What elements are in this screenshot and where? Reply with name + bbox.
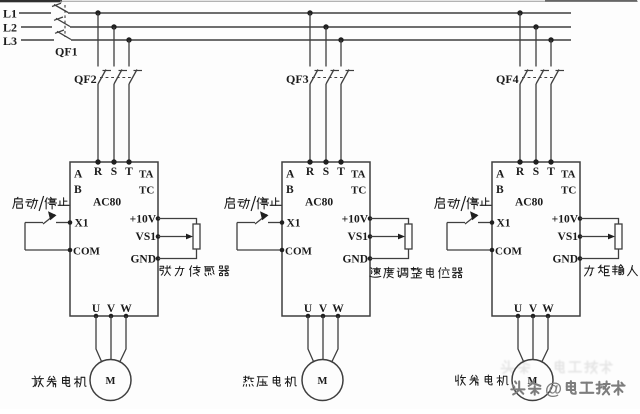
- node GND terminal: [578, 256, 583, 261]
- wire L1 to QF2 pole 1: [97, 13, 99, 67]
- breaker QF4 pole 3: [551, 70, 559, 85]
- svg-text:T: T: [337, 166, 345, 178]
- node GND terminal: [368, 256, 373, 261]
- svg-text:R: R: [306, 166, 315, 178]
- potentiometer R2 body: [405, 224, 412, 249]
- node U terminal: [94, 314, 99, 319]
- svg-text:QF4: QF4: [496, 72, 519, 86]
- node V terminal: [321, 314, 326, 319]
- svg-text:V: V: [529, 303, 538, 315]
- wire switch to X1 terminal: [478, 222, 492, 224]
- wire L3 to QF3 pole 3: [340, 40, 342, 67]
- svg-text:T: T: [547, 166, 555, 178]
- breaker QF1 pole L1: [54, 5, 68, 13]
- switch S1 blade: [43, 215, 55, 225]
- watermark 头条@电工技术: [511, 381, 540, 395]
- wire VS1 to pot R3 wiper: [580, 236, 610, 238]
- breaker QF4 linkage (dashed): [522, 77, 553, 79]
- node X1 terminal: [280, 220, 285, 225]
- svg-text:B: B: [74, 184, 82, 196]
- wire switch return (left leg): [236, 223, 238, 251]
- wire L2 to QF4 pole 2: [535, 27, 537, 67]
- inverter U3 pin T terminal: [548, 159, 553, 164]
- node W terminal: [336, 314, 341, 319]
- svg-text:VS1: VS1: [136, 231, 157, 243]
- breaker QF3 linkage (dashed): [312, 77, 343, 79]
- wire pot R1 bottom to GND: [158, 249, 197, 259]
- svg-text:X1: X1: [287, 218, 301, 230]
- pot label block 1: [160, 266, 229, 277]
- svg-text:VS1: VS1: [348, 231, 369, 243]
- wire QF3 pole 2 to inverter S: [325, 84, 327, 162]
- pot R2 wiper arrowhead: [398, 234, 405, 240]
- node COM terminal: [280, 248, 285, 253]
- motor M1 body: [90, 360, 131, 401]
- wire L2 to QF2 pole 2: [113, 27, 115, 67]
- breaker QF3 pole 3: [341, 70, 349, 85]
- breaker QF1 linkage (dashed): [64, 5, 66, 37]
- node W terminal: [124, 314, 129, 319]
- wire L3 to QF4 pole 3: [550, 40, 552, 67]
- svg-text:S: S: [111, 166, 117, 178]
- inverter U1 pin S terminal: [111, 159, 116, 164]
- potentiometer R1 body: [193, 224, 200, 249]
- wire pot R2 bottom to GND: [370, 249, 409, 259]
- breaker QF4 pole 1: [520, 70, 528, 85]
- svg-text:GND: GND: [342, 254, 368, 266]
- wire switch return (left leg): [446, 223, 448, 251]
- breaker QF4 pole 2: [536, 70, 544, 85]
- svg-text:@: @: [545, 379, 562, 399]
- breaker QF3 pole 2: [326, 70, 334, 85]
- inverter U3 pin R terminal: [517, 159, 522, 164]
- breaker QF1 pole L3: [57, 31, 71, 39]
- node COM terminal: [68, 248, 73, 253]
- node VS1 terminal: [156, 234, 161, 239]
- breaker QF1 pole L2: [56, 18, 70, 26]
- svg-text:AC80: AC80: [305, 197, 333, 209]
- pot label block 2: [370, 267, 463, 278]
- inverter U2 pin T terminal: [338, 159, 343, 164]
- switch S2 arrowhead: [260, 211, 269, 220]
- wire U to motor M1: [96, 316, 102, 362]
- node +10V terminal: [578, 216, 583, 221]
- svg-text:+10V: +10V: [342, 214, 369, 226]
- svg-text:A: A: [496, 169, 505, 181]
- breaker QF2 pole 2: [114, 70, 122, 85]
- svg-text:AC80: AC80: [93, 197, 121, 209]
- svg-text:GND: GND: [130, 254, 156, 266]
- start/stop label block 3: [435, 196, 491, 211]
- svg-text:QF2: QF2: [74, 72, 97, 86]
- faint ghost of watermark (scan artifact): [501, 361, 612, 374]
- switch S2 blade: [255, 215, 267, 225]
- svg-text:TC: TC: [139, 185, 154, 197]
- svg-text:S: S: [533, 166, 539, 178]
- node V terminal: [531, 314, 536, 319]
- svg-text:VS1: VS1: [558, 231, 579, 243]
- svg-text:A: A: [74, 169, 83, 181]
- inverter U2 pin S terminal: [323, 159, 328, 164]
- svg-text:W: W: [332, 303, 344, 315]
- node QF2 tap on L2: [111, 24, 116, 29]
- node COM terminal: [490, 248, 495, 253]
- wire W to motor M3: [542, 316, 548, 362]
- svg-text:X1: X1: [75, 218, 89, 230]
- node W terminal: [546, 314, 551, 319]
- svg-text:TA: TA: [561, 169, 576, 181]
- wire QF4 pole 2 to inverter S: [535, 84, 537, 162]
- wire pot R3 bottom to GND: [580, 249, 619, 259]
- svg-text:T: T: [125, 166, 133, 178]
- wire QF3 pole 3 to inverter T: [340, 84, 342, 162]
- wire L3 to QF2 pole 3: [128, 40, 130, 67]
- node GND terminal: [156, 256, 161, 261]
- motor label block 3: [456, 375, 508, 385]
- svg-text:TC: TC: [351, 185, 366, 197]
- node QF3 tap on L2: [323, 24, 328, 29]
- wire W to motor M1: [120, 316, 126, 362]
- switch S3 wire from X1: [447, 222, 465, 224]
- switch S3 blade: [465, 215, 477, 225]
- wire QF4 pole 3 to inverter T: [550, 84, 552, 162]
- motor label block 1: [32, 376, 86, 387]
- start/stop label block 2: [225, 196, 281, 211]
- breaker QF2 pole 1: [98, 70, 106, 85]
- inverter U3 pin S terminal: [533, 159, 538, 164]
- inverter U1 pin T terminal: [126, 159, 131, 164]
- node VS1 terminal: [368, 234, 373, 239]
- svg-text:U: U: [92, 303, 101, 315]
- wire V to motor M1: [110, 316, 112, 360]
- pot R1 wiper arrowhead: [186, 234, 193, 240]
- switch S1 wire from X1: [25, 222, 43, 224]
- wire switch to X1 terminal: [56, 222, 70, 224]
- svg-text:L2: L2: [3, 21, 17, 35]
- node QF2 tap on L1: [95, 10, 100, 15]
- breaker QF2 pole 3: [129, 70, 137, 85]
- svg-text:W: W: [542, 303, 554, 315]
- motor M3 body: [512, 360, 553, 401]
- motor M2 body: [302, 360, 343, 401]
- node +10V terminal: [156, 216, 161, 221]
- svg-text:GND: GND: [552, 254, 578, 266]
- scan artifact: dark top edge: [0, 0, 62, 2]
- svg-text:B: B: [286, 184, 294, 196]
- wire L3 bus: [21, 39, 54, 41]
- node V terminal: [109, 314, 114, 319]
- wire L1 bus: [19, 12, 51, 14]
- node QF4 tap on L3: [548, 37, 553, 42]
- svg-text:TC: TC: [561, 185, 576, 197]
- svg-text:V: V: [107, 303, 116, 315]
- svg-text:W: W: [120, 303, 132, 315]
- svg-text:+10V: +10V: [130, 214, 157, 226]
- svg-text:B: B: [496, 184, 504, 196]
- switch S2 wire from X1: [237, 222, 255, 224]
- node QF3 tap on L1: [307, 10, 312, 15]
- wire V to motor M2: [322, 316, 324, 360]
- svg-text:COM: COM: [285, 246, 313, 258]
- node X1 terminal: [490, 220, 495, 225]
- node +10V terminal: [368, 216, 373, 221]
- wire +10V to pot R1 top: [158, 219, 197, 225]
- svg-text:QF1: QF1: [55, 45, 78, 59]
- svg-text:+10V: +10V: [552, 214, 579, 226]
- node VS1 terminal: [578, 234, 583, 239]
- start/stop label block 1: [13, 196, 69, 211]
- wire U to motor M3: [518, 316, 524, 362]
- motor label block 2: [243, 376, 296, 387]
- potentiometer R3 body: [615, 224, 622, 249]
- svg-text:S: S: [323, 166, 329, 178]
- wire QF2 pole 2 to inverter S: [113, 84, 115, 162]
- inverter U1 pin R terminal: [95, 159, 100, 164]
- svg-text:COM: COM: [73, 246, 101, 258]
- svg-text:L1: L1: [3, 7, 17, 21]
- wire switch return (left leg): [24, 223, 26, 251]
- svg-text:A: A: [286, 169, 295, 181]
- svg-text:U: U: [514, 303, 523, 315]
- svg-text:AC80: AC80: [515, 197, 543, 209]
- wire VS1 to pot R1 wiper: [158, 236, 188, 238]
- wire L2 to QF3 pole 2: [325, 27, 327, 67]
- wire switch return to COM: [237, 249, 282, 251]
- wire QF2 pole 3 to inverter T: [128, 84, 130, 162]
- wire VS1 to pot R2 wiper: [370, 236, 400, 238]
- node QF4 tap on L1: [517, 10, 522, 15]
- svg-text:X1: X1: [497, 218, 511, 230]
- inverter U1 AC80 body: [70, 162, 158, 316]
- wire +10V to pot R2 top: [370, 219, 409, 225]
- breaker QF2 linkage (dashed): [100, 77, 131, 79]
- inverter U3 AC80 body: [492, 162, 580, 316]
- svg-text:V: V: [319, 303, 328, 315]
- wire switch to X1 terminal: [268, 222, 282, 224]
- wire L1 to QF3 pole 1: [309, 13, 311, 67]
- switch S3 arrowhead: [470, 211, 479, 220]
- pot R3 wiper arrowhead: [608, 234, 615, 240]
- inverter U2 AC80 body: [282, 162, 370, 316]
- svg-text:QF3: QF3: [286, 72, 309, 86]
- svg-text:U: U: [304, 303, 313, 315]
- wire W to motor M2: [332, 316, 338, 362]
- inverter U2 pin R terminal: [307, 159, 312, 164]
- wire U to motor M2: [308, 316, 314, 362]
- switch S1 arrowhead: [48, 211, 57, 220]
- node QF3 tap on L3: [338, 37, 343, 42]
- svg-text:R: R: [516, 166, 525, 178]
- svg-text:TA: TA: [351, 169, 366, 181]
- breaker QF3 pole 1: [310, 70, 318, 85]
- node U terminal: [306, 314, 311, 319]
- svg-text:TA: TA: [139, 169, 154, 181]
- svg-text:M: M: [318, 376, 328, 387]
- svg-text:COM: COM: [495, 246, 523, 258]
- svg-text:M: M: [106, 376, 116, 387]
- wire QF4 pole 1 to inverter R: [519, 84, 521, 162]
- wire QF3 pole 1 to inverter R: [309, 84, 311, 162]
- wire switch return to COM: [25, 249, 70, 251]
- pot label block 3: [585, 265, 638, 276]
- node U terminal: [516, 314, 521, 319]
- wire V to motor M3: [532, 316, 534, 360]
- wire L2 bus: [21, 26, 52, 28]
- wire switch return to COM: [447, 249, 492, 251]
- svg-text:R: R: [94, 166, 103, 178]
- node QF4 tap on L2: [533, 24, 538, 29]
- node QF2 tap on L3: [126, 37, 131, 42]
- svg-text:L3: L3: [3, 34, 17, 48]
- wire +10V to pot R3 top: [580, 219, 619, 225]
- wire L1 to QF4 pole 1: [519, 13, 521, 67]
- wire QF2 pole 1 to inverter R: [97, 84, 99, 162]
- node X1 terminal: [68, 220, 73, 225]
